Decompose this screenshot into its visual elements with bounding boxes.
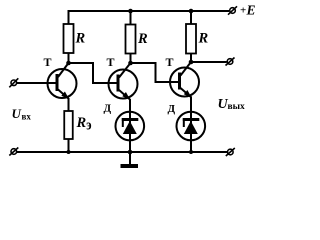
- svg-text:T: T: [44, 55, 52, 69]
- svg-text:U: U: [12, 106, 22, 121]
- svg-text:э: э: [86, 116, 91, 132]
- svg-text:E: E: [246, 3, 256, 18]
- svg-text:R: R: [75, 31, 86, 47]
- svg-text:T: T: [107, 55, 115, 69]
- svg-text:T: T: [166, 55, 174, 69]
- svg-text:R: R: [198, 31, 209, 47]
- svg-text:вых: вых: [228, 102, 246, 112]
- svg-text:Д: Д: [168, 103, 176, 115]
- svg-text:Д: Д: [104, 103, 112, 115]
- svg-text:+: +: [240, 5, 246, 17]
- svg-text:R: R: [76, 115, 87, 131]
- svg-text:вх: вх: [22, 112, 32, 122]
- svg-text:R: R: [137, 31, 148, 47]
